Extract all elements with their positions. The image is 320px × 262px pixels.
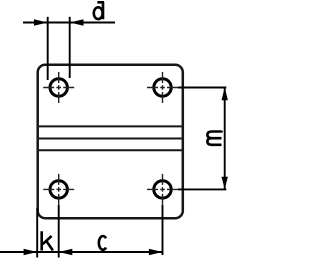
extension line d left (47, 17, 49, 80)
hole top-left (50, 79, 67, 96)
extension line k left (plate edge) (36, 208, 38, 258)
centerline horizontal bottom-right (147, 188, 178, 190)
centerline horizontal bottom-left (43, 188, 74, 190)
arrowhead d left (34, 19, 48, 26)
arrowhead k left (24, 249, 38, 255)
arrowhead c left (59, 249, 73, 255)
extension line k right / hole centre (58, 205, 60, 258)
dimension line k c (0, 251, 163, 253)
hole top-right (154, 79, 171, 96)
extension line m top (178, 87, 226, 89)
plate outline (38, 65, 183, 218)
label k (42, 231, 53, 250)
arrowhead m bottom (222, 177, 228, 190)
centerline vertical top-left (58, 72, 60, 103)
label c (99, 236, 106, 250)
extension line c right / hole centre (162, 205, 164, 255)
hole bottom-left (50, 181, 67, 198)
centerline vertical bottom-left (58, 174, 60, 205)
hole bottom-right (154, 181, 171, 198)
dimension line d (23, 22, 115, 24)
centerline horizontal top-right (147, 87, 178, 89)
arrowhead m top (222, 88, 228, 101)
groove line 2 (39, 138, 182, 140)
extension line d right (69, 17, 71, 78)
centerline horizontal top-left (43, 87, 74, 89)
centerline vertical bottom-right (162, 174, 164, 205)
centerline vertical top-right (162, 72, 164, 103)
label m (rotated) (207, 131, 221, 145)
groove line 1 (39, 125, 182, 127)
arrowhead c right (149, 249, 163, 255)
label d (94, 2, 104, 19)
arrowhead d right (70, 19, 84, 26)
dimension line m (224, 88, 226, 190)
groove line 3 (39, 149, 182, 151)
extension line m bottom (178, 188, 226, 190)
